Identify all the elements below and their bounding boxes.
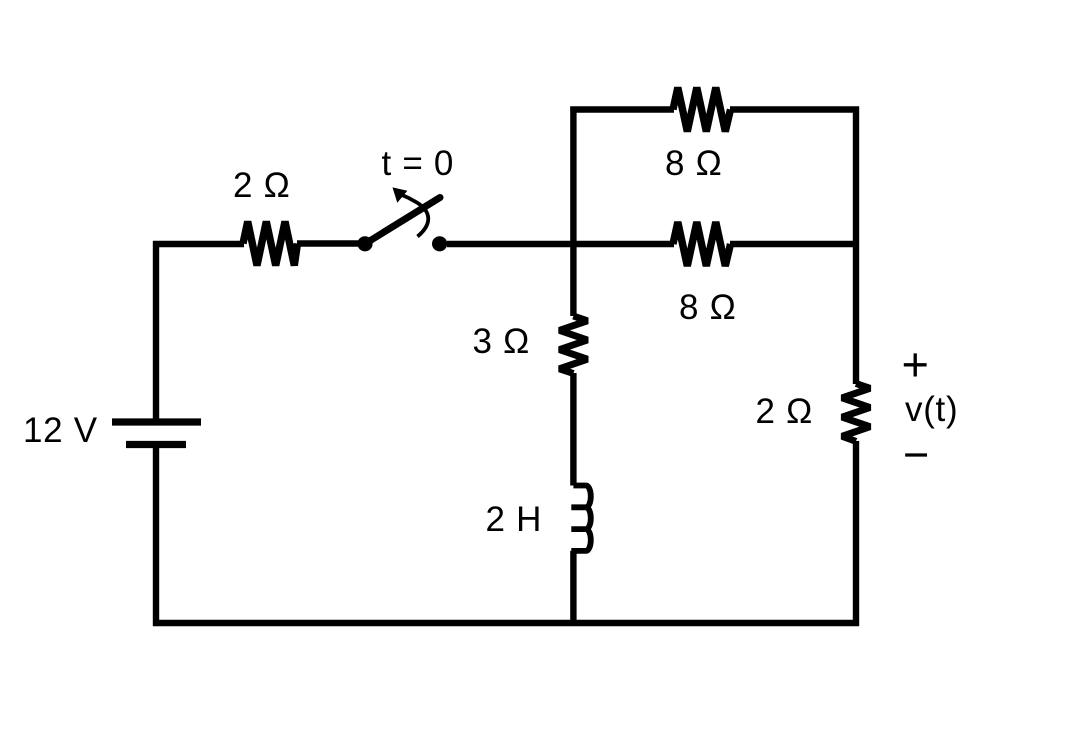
wire: middle vertical below inductor to bottom wire — [570, 551, 576, 623]
battery V1 short negative plate — [126, 441, 186, 448]
svg-text:2 H: 2 H — [486, 500, 543, 539]
wire: middle vertical between R4 and inductor — [570, 373, 576, 486]
svg-text:8 Ω: 8 Ω — [665, 144, 722, 183]
resistor R1 2-ohm (top left, horizontal zigzag) — [243, 222, 298, 266]
wire: top-left horizontal from corner to 2-ohm resistor — [153, 241, 244, 247]
switch SW1 blade (open, angled up-right) — [365, 198, 440, 244]
wire: bottom horizontal — [153, 620, 859, 626]
switch SW1 left contact dot — [357, 236, 372, 251]
wire: right vertical lower (R5 to bottom-right corner) — [853, 441, 859, 626]
svg-text:12 V: 12 V — [23, 411, 98, 450]
resistor R2 8-ohm (top horizontal zigzag) — [673, 88, 731, 132]
wire: from R1 to switch left contact — [297, 240, 360, 246]
wire: left vertical top (battery + terminal up to top-left corner) — [153, 241, 159, 422]
svg-text:+: + — [902, 338, 930, 391]
battery V1 long positive plate — [112, 418, 201, 425]
svg-text:8 Ω: 8 Ω — [679, 288, 736, 327]
switch arrow head — [393, 187, 408, 202]
wire: second branch horizontal, right dot to 8-ohm R3 — [447, 241, 674, 247]
resistor R3 8-ohm (middle horizontal zigzag) — [673, 222, 731, 266]
wire: right vertical upper (top corner down to 2-ohm R5) — [853, 107, 859, 385]
svg-text:t = 0: t = 0 — [382, 144, 455, 183]
svg-text:3 Ω: 3 Ω — [473, 322, 530, 361]
wire: top branch horizontal left segment — [570, 106, 674, 112]
resistor R4 3-ohm (middle vertical zigzag) — [559, 316, 587, 374]
svg-text:2 Ω: 2 Ω — [233, 166, 290, 205]
wire: second branch from R3 to right vertical — [730, 241, 859, 247]
svg-text:2 Ω: 2 Ω — [756, 392, 813, 431]
wire: left vertical bottom (battery - terminal to bottom-left corner) — [153, 445, 159, 627]
switch SW1 right contact dot — [432, 236, 447, 251]
resistor R5 2-ohm (right vertical zigzag) — [842, 384, 870, 442]
switch opening-motion curved arrow — [401, 194, 429, 236]
svg-text:−: − — [903, 429, 930, 480]
wire: middle vertical upper (junction up to top branch corner) — [570, 107, 576, 317]
wire: top branch horizontal right segment — [730, 106, 859, 112]
svg-text:v(t): v(t) — [905, 390, 958, 429]
inductor L1 2 H (vertical coil of 3 loops) — [571, 486, 591, 551]
